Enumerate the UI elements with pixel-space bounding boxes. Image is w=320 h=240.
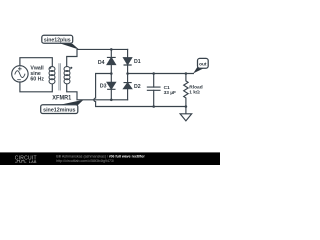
flag sine12plus <box>42 35 79 49</box>
svg-text:60 Hz: 60 Hz <box>30 76 44 82</box>
logo waveform <box>15 160 26 162</box>
svg-text:C1: C1 <box>164 85 170 91</box>
flag out <box>193 58 208 73</box>
svg-text:sine12minus: sine12minus <box>43 107 76 113</box>
flag sine12minus <box>41 100 84 114</box>
diode D2 <box>124 83 132 89</box>
junction dot Rload bottom <box>185 105 188 108</box>
wire: source loop bottom <box>20 82 52 92</box>
junction dot left mid <box>110 72 113 75</box>
transformer secondary winding <box>64 66 70 83</box>
capacitor C1 leads <box>153 74 155 107</box>
junction dot C1 bottom <box>152 105 155 108</box>
wire: bridge left branch top <box>110 49 112 57</box>
diode D3 <box>107 82 115 89</box>
wire: bridge right branch bottom <box>127 89 129 100</box>
svg-text:XFMR1: XFMR1 <box>52 96 72 102</box>
wire: bridge left branch middle <box>110 65 112 83</box>
transformer XFMR1 primary winding <box>49 66 55 83</box>
voltage source minus <box>18 79 21 81</box>
svg-text:out: out <box>199 61 207 67</box>
junction dot Rload top <box>185 72 188 75</box>
diode D4 <box>107 57 116 64</box>
svg-text:1 kΩ: 1 kΩ <box>189 90 200 96</box>
wire: DC+ rail to out <box>128 73 194 75</box>
wire: secondary top lead to AC+ rail <box>67 49 128 66</box>
svg-text:LAB: LAB <box>29 160 37 164</box>
svg-text:D2: D2 <box>134 84 141 90</box>
svg-text:33 µF: 33 µF <box>164 90 176 96</box>
diode D1 <box>124 58 132 65</box>
ground symbol <box>180 107 192 121</box>
wire: secondary bottom lead to AC- rail <box>67 84 128 100</box>
wire: bridge right branch middle <box>127 65 129 83</box>
svg-text:http://circuitlab.com/c/58t3b4: http://circuitlab.com/c/58t3b4tg9473/ <box>56 159 114 163</box>
resistor Rload <box>184 74 188 107</box>
junction dot right mid <box>126 72 129 75</box>
wire: DC- from left mid junction with hop over AC- rail <box>94 74 186 107</box>
svg-text:D4: D4 <box>98 60 105 66</box>
junction dot bottom left branch <box>110 99 113 102</box>
svg-text:D3: D3 <box>100 84 107 90</box>
junction dot bridge top left <box>110 48 113 51</box>
transformer primary polarity dot <box>49 67 51 69</box>
junction dot C1 top <box>152 72 155 75</box>
wire: bridge left branch bottom <box>110 89 112 100</box>
capacitor C1 plates <box>147 87 160 90</box>
footer bar <box>0 152 220 165</box>
wire: bridge right branch top <box>127 49 129 57</box>
transformer core <box>59 64 61 90</box>
svg-text:D1: D1 <box>134 59 141 65</box>
svg-text:sine12plus: sine12plus <box>44 37 71 43</box>
svg-text:Rload: Rload <box>189 85 202 91</box>
wire: source loop left/top <box>20 58 52 67</box>
transformer secondary polarity dot <box>70 67 72 69</box>
voltage source sine wave <box>15 71 25 78</box>
voltage source V1 circle <box>12 66 28 82</box>
voltage source plus <box>18 67 21 70</box>
